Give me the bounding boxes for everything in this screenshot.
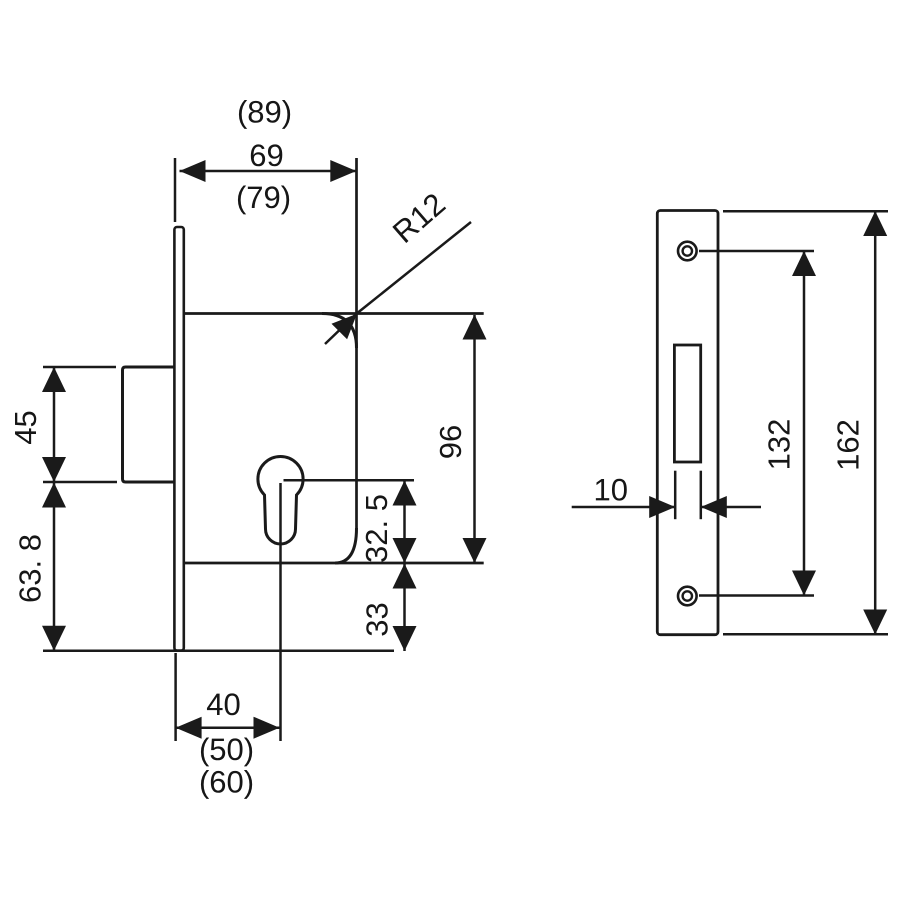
arrow 69 left <box>180 160 206 182</box>
10 dim extension left <box>674 471 677 520</box>
svg-text:132: 132 <box>762 419 797 471</box>
dimension 162 line <box>874 211 877 634</box>
arrow 162 top <box>863 211 887 236</box>
svg-text:33: 33 <box>360 602 395 636</box>
wire: case bottom edge + 96/32.5 extension at y563 <box>184 562 484 565</box>
keyhole centerline vertical <box>279 483 282 741</box>
svg-text:(89): (89) <box>237 94 292 129</box>
svg-text:(50): (50) <box>199 732 254 767</box>
arrow 63.8 bottom <box>42 626 66 651</box>
faceplate <box>174 227 183 651</box>
dimension 10 left segment <box>572 506 676 509</box>
keyhole center horizontal extension for 32.5 <box>284 479 415 482</box>
40 left extension <box>174 653 177 741</box>
strike plate cutout <box>674 345 700 462</box>
arrow 40 left <box>176 717 202 739</box>
132 top extension <box>699 250 814 253</box>
dimension 63.8 line <box>53 482 56 651</box>
dimension 33 line <box>403 563 406 651</box>
arrow R12 <box>332 314 358 340</box>
69 left extension <box>174 158 177 222</box>
wire: long bottom extension line y651 <box>43 649 394 652</box>
dimension 96 line <box>473 315 476 563</box>
R12 leader line <box>325 222 471 344</box>
svg-text:R12: R12 <box>386 186 452 250</box>
dimension 32.5 line <box>403 481 406 564</box>
arrow 132 top <box>792 251 816 276</box>
arrow 96 top <box>463 315 487 340</box>
wire: latch top edge + 45 top extension line <box>43 366 116 369</box>
arrow 69 right <box>330 160 356 182</box>
svg-text:40: 40 <box>206 687 241 722</box>
svg-text:162: 162 <box>831 419 866 471</box>
arrow 162 bottom <box>863 610 887 635</box>
162 top extension <box>723 210 888 213</box>
132 bottom extension <box>699 594 814 597</box>
10 dim extension right <box>700 471 703 520</box>
dimension 45 line <box>53 367 56 482</box>
arrow 45 bottom <box>42 457 66 482</box>
arrow 132 bottom <box>792 571 816 596</box>
screw hole top outer <box>678 242 697 261</box>
svg-text:96: 96 <box>433 425 468 459</box>
dimension 69 line <box>180 170 357 173</box>
case top-right corner R12 <box>322 314 357 349</box>
latch bolt left edge <box>123 367 177 482</box>
arrow 32.5 top <box>393 481 417 506</box>
arrow 10 left <box>649 496 675 518</box>
svg-text:(79): (79) <box>236 180 291 215</box>
svg-text:69: 69 <box>249 138 284 173</box>
svg-text:32. 5: 32. 5 <box>359 494 394 563</box>
dimension 132 line <box>803 252 806 596</box>
arrow 32.5 bottom <box>393 538 417 563</box>
screw hole top inner <box>683 246 692 255</box>
arrow 33 top <box>393 564 417 589</box>
dimension 10 right segment <box>701 506 761 509</box>
svg-text:10: 10 <box>593 472 628 507</box>
screw hole bottom inner <box>683 591 692 600</box>
svg-text:(60): (60) <box>199 764 254 799</box>
arrow 40 right <box>254 717 280 739</box>
dimension 40 line <box>176 726 280 729</box>
arrow 96 bottom <box>463 538 487 563</box>
strike plate outline <box>657 211 718 635</box>
screw hole bottom outer <box>678 587 697 606</box>
arrow 45 top <box>42 367 66 392</box>
162 bottom extension <box>723 633 888 636</box>
svg-text:45: 45 <box>8 410 43 444</box>
arrow 10 right <box>701 496 727 518</box>
wire: latch bottom edge + 45/63.8 shared extension line <box>43 481 117 484</box>
wire: case top edge + 96 top extension <box>184 312 484 315</box>
case bottom-right rounded corner <box>335 528 357 563</box>
keyhole (euro profile) <box>258 456 303 544</box>
arrow 63.8 top <box>42 483 66 508</box>
arrow 33 bottom <box>393 626 417 651</box>
wire: case right edge + 69 right extension <box>355 158 358 529</box>
svg-text:63. 8: 63. 8 <box>13 534 48 603</box>
